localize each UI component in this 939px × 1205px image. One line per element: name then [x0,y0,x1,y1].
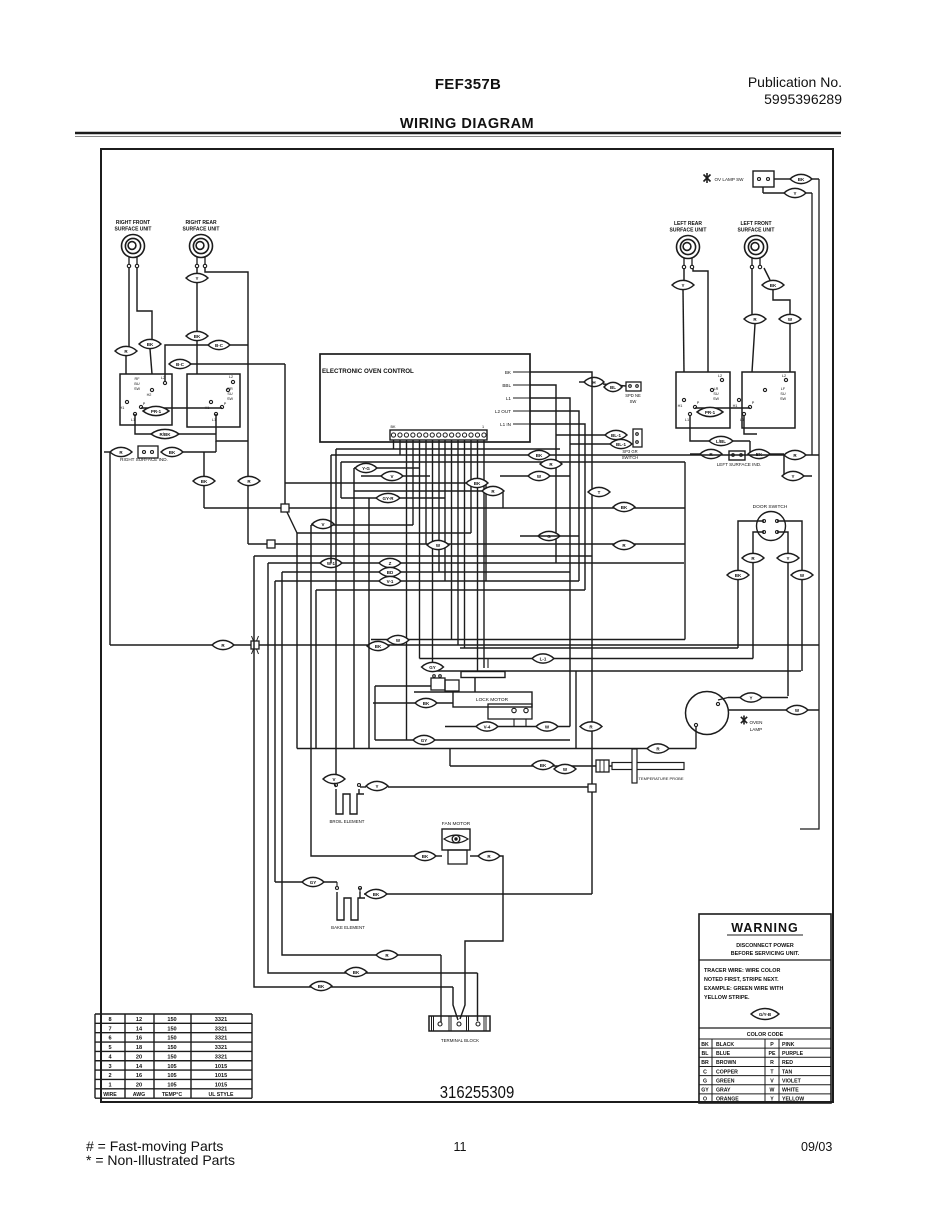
svg-text:GY-R: GY-R [382,496,394,501]
svg-text:L2 OUT: L2 OUT [495,409,511,414]
svg-text:12: 12 [136,1017,142,1023]
svg-text:SP3 GR: SP3 GR [622,449,637,454]
svg-text:3321: 3321 [215,1054,227,1060]
svg-text:BK: BK [375,644,382,649]
svg-text:YELLOW: YELLOW [782,1097,804,1103]
svg-text:LOCK MOTOR: LOCK MOTOR [476,697,509,703]
svg-text:RIGHT SURFACE IND.: RIGHT SURFACE IND. [120,457,168,462]
svg-text:OVEN: OVEN [749,720,762,725]
svg-text:BU: BU [134,382,140,386]
svg-text:H1: H1 [120,406,125,410]
svg-text:BK: BK [536,453,543,458]
svg-text:LEFT FRONT: LEFT FRONT [740,221,771,227]
svg-text:SW: SW [227,397,234,401]
svg-text:O: O [703,1097,707,1103]
svg-text:L1 IN: L1 IN [500,422,511,427]
svg-text:RR: RR [227,387,233,391]
svg-text:EXAMPLE: GREEN WIRE WITH: EXAMPLE: GREEN WIRE WITH [704,986,783,992]
svg-text:Publication No.: Publication No. [748,74,842,90]
svg-text:BAKE ELEMENT: BAKE ELEMENT [331,925,365,930]
svg-text:BK: BK [770,283,777,288]
svg-text:BLUE: BLUE [716,1051,731,1057]
svg-text:BK: BK [735,573,742,578]
svg-text:TERMINAL BLOCK: TERMINAL BLOCK [441,1038,479,1043]
svg-text:Y: Y [793,191,796,196]
svg-text:L1: L1 [506,396,512,401]
svg-text:P: P [224,402,227,406]
svg-text:BEFORE SERVICING UNIT.: BEFORE SERVICING UNIT. [731,951,800,957]
svg-text:BK: BK [194,334,201,339]
svg-text:SPD NE: SPD NE [625,393,641,398]
svg-text:V: V [770,1078,774,1084]
svg-text:20: 20 [136,1054,142,1060]
svg-text:BL: BL [610,385,616,390]
svg-text:DISCONNECT POWER: DISCONNECT POWER [736,943,794,949]
svg-text:SURFACE UNIT: SURFACE UNIT [738,228,775,234]
svg-text:20: 20 [136,1082,142,1088]
svg-text:OV LAMP SW: OV LAMP SW [714,177,744,182]
svg-text:RIGHT FRONT: RIGHT FRONT [116,220,150,226]
svg-text:PR-1: PR-1 [705,410,716,415]
svg-text:TRACER WIRE: WIRE COLOR: TRACER WIRE: WIRE COLOR [704,968,780,974]
svg-text:3321: 3321 [215,1026,227,1032]
svg-text:B-C: B-C [176,362,185,367]
svg-text:WHITE: WHITE [782,1088,799,1094]
svg-text:P: P [752,401,755,405]
svg-text:BK: BK [474,481,481,486]
svg-text:Y: Y [749,695,752,700]
svg-text:L/BL: L/BL [716,439,726,444]
svg-text:LR: LR [714,387,719,391]
svg-text:105: 105 [167,1082,176,1088]
svg-text:L2: L2 [718,374,722,378]
svg-text:Y: Y [681,283,684,288]
svg-text:RED: RED [782,1060,793,1066]
svg-text:GRAY: GRAY [716,1088,731,1094]
svg-text:BK: BK [169,450,176,455]
svg-text:1015: 1015 [215,1064,227,1070]
svg-text:VIOLET: VIOLET [782,1078,802,1084]
svg-text:Y: Y [195,276,198,281]
svg-text:BK: BK [318,984,325,989]
svg-text:14: 14 [136,1064,143,1070]
svg-text:P: P [697,401,700,405]
svg-text:BK: BK [147,342,154,347]
svg-text:P: P [770,1042,774,1048]
svg-text:PE: PE [769,1051,776,1057]
svg-text:3321: 3321 [215,1045,227,1051]
svg-text:L1: L1 [685,418,689,422]
svg-text:RIGHT REAR: RIGHT REAR [185,220,217,226]
svg-text:V: V [390,474,393,479]
svg-text:BK: BK [353,970,360,975]
svg-text:L2: L2 [782,374,786,378]
svg-text:Y: Y [770,1097,774,1103]
svg-text:* = Non-Illustrated Parts: * = Non-Illustrated Parts [86,1152,235,1168]
svg-text:SW: SW [713,397,720,401]
svg-text:8: 8 [108,1017,111,1023]
svg-text:BROWN: BROWN [716,1060,736,1066]
svg-text:316255309: 316255309 [440,1083,514,1102]
svg-text:BLACK: BLACK [716,1042,734,1048]
svg-text:ELECTRONIC OVEN CONTROL: ELECTRONIC OVEN CONTROL [322,368,414,375]
svg-text:BK: BK [505,370,512,375]
svg-text:BK: BK [798,177,805,182]
svg-text:P: P [143,402,146,406]
svg-text:H: H [592,380,595,385]
svg-text:BK: BK [540,763,547,768]
svg-text:GY: GY [429,665,436,670]
svg-text:B-C: B-C [215,343,224,348]
svg-text:TAN: TAN [782,1069,793,1075]
svg-text:Y-G: Y-G [362,466,370,471]
svg-text:PINK: PINK [782,1042,795,1048]
svg-text:BK: BK [422,854,429,859]
svg-text:SW: SW [780,397,787,401]
svg-text:G/Y-B: G/Y-B [759,1012,772,1017]
svg-text:W: W [770,1088,775,1094]
svg-text:WIRING DIAGRAM: WIRING DIAGRAM [400,116,534,132]
svg-text:BL-1: BL-1 [611,433,621,438]
svg-text:16: 16 [136,1073,142,1079]
svg-text:H2: H2 [147,393,152,397]
svg-text:AWG: AWG [133,1092,145,1098]
svg-text:3: 3 [108,1064,111,1070]
svg-text:L-1: L-1 [540,656,547,661]
svg-text:ORANGE: ORANGE [716,1097,739,1103]
svg-text:SU: SU [780,392,786,396]
svg-text:18: 18 [136,1045,142,1051]
svg-text:BR: BR [701,1060,709,1066]
svg-text:150: 150 [167,1054,176,1060]
svg-text:V-4: V-4 [484,724,491,729]
svg-text:WIRE: WIRE [103,1092,117,1098]
svg-text:3321: 3321 [215,1017,227,1023]
svg-text:V: V [321,522,324,527]
svg-text:PURPLE: PURPLE [782,1051,804,1057]
svg-text:FEF357B: FEF357B [435,76,501,93]
svg-text:14: 14 [136,1026,143,1032]
svg-text:T: T [598,490,601,495]
svg-text:16: 16 [136,1036,142,1042]
svg-text:150: 150 [167,1036,176,1042]
svg-text:5: 5 [108,1045,111,1051]
svg-text:BL-1: BL-1 [616,442,626,447]
svg-text:11: 11 [454,1140,467,1154]
svg-text:BL: BL [702,1051,710,1057]
svg-text:LEFT SURFACE IND.: LEFT SURFACE IND. [717,462,762,467]
svg-text:SURFACE UNIT: SURFACE UNIT [115,227,152,233]
svg-text:Y: Y [375,784,378,789]
svg-text:BBL: BBL [502,383,511,388]
svg-text:WARNING: WARNING [731,921,798,935]
svg-text:6: 6 [108,1036,111,1042]
svg-text:1015: 1015 [215,1082,227,1088]
svg-text:H1: H1 [678,404,683,408]
svg-text:LF: LF [781,387,786,391]
svg-text:TEMPERATURE PROBE: TEMPERATURE PROBE [638,776,683,781]
svg-text:RF: RF [134,377,140,381]
svg-text:BK: BK [390,425,396,429]
svg-text:PR-1: PR-1 [151,409,162,414]
svg-text:GY: GY [310,880,317,885]
svg-text:V-1: V-1 [387,579,394,584]
svg-text:FAN MOTOR: FAN MOTOR [442,821,471,827]
svg-text:150: 150 [167,1026,176,1032]
svg-text:2: 2 [108,1073,111,1079]
svg-text:LEFT REAR: LEFT REAR [674,221,702,227]
svg-text:G: G [703,1078,707,1084]
svg-text:BK: BK [201,479,208,484]
svg-text:Y: Y [791,474,794,479]
svg-text:COLOR CODE: COLOR CODE [747,1032,784,1038]
svg-text:3321: 3321 [215,1036,227,1042]
svg-text:SW: SW [630,399,637,404]
svg-text:GREEN: GREEN [716,1078,735,1084]
svg-text:BD: BD [387,570,394,575]
svg-text:BK: BK [373,892,380,897]
svg-text:BK: BK [621,505,628,510]
svg-text:YELLOW STRIPE.: YELLOW STRIPE. [704,995,750,1001]
svg-text:SURFACE UNIT: SURFACE UNIT [183,227,220,233]
svg-text:DOOR SWITCH: DOOR SWITCH [753,504,788,510]
svg-text:BROIL ELEMENT: BROIL ELEMENT [330,819,365,824]
svg-text:R/BK: R/BK [160,432,172,437]
svg-text:1: 1 [482,425,484,429]
svg-text:SWITCH: SWITCH [622,455,639,460]
svg-text:Z: Z [389,561,392,566]
svg-text:L2: L2 [229,375,233,379]
svg-text:09/03: 09/03 [801,1140,832,1154]
svg-text:COPPER: COPPER [716,1069,738,1075]
svg-text:105: 105 [167,1073,176,1079]
svg-text:V: V [332,777,335,782]
svg-text:NOTED FIRST, STRIPE NEXT.: NOTED FIRST, STRIPE NEXT. [704,977,779,983]
svg-text:SU: SU [227,392,233,396]
svg-text:5995396289: 5995396289 [764,91,842,107]
svg-text:LAMP: LAMP [750,727,763,732]
svg-text:SU: SU [713,392,719,396]
svg-text:TEMP°C: TEMP°C [162,1092,182,1098]
svg-text:GY: GY [701,1088,709,1094]
svg-text:150: 150 [167,1017,176,1023]
svg-text:GY: GY [421,738,428,743]
svg-text:R: R [770,1060,774,1066]
svg-text:BK: BK [701,1042,709,1048]
svg-text:7: 7 [108,1026,111,1032]
svg-text:UL STYLE: UL STYLE [209,1092,235,1098]
svg-text:Y: Y [786,556,789,561]
svg-text:150: 150 [167,1045,176,1051]
svg-text:105: 105 [167,1064,176,1070]
svg-text:SW: SW [134,387,141,391]
svg-text:C: C [703,1069,707,1075]
svg-text:BK: BK [423,701,430,706]
svg-text:1: 1 [108,1082,111,1088]
svg-text:1015: 1015 [215,1073,227,1079]
svg-text:SURFACE UNIT: SURFACE UNIT [670,228,707,234]
